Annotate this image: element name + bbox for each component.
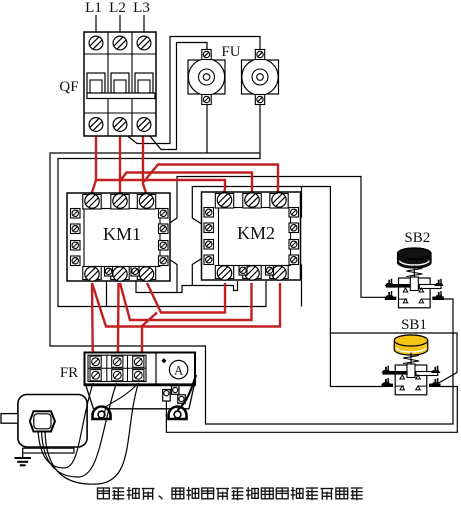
svg-text:KM1: KM1 [103, 224, 141, 244]
svg-text:QF: QF [59, 79, 78, 95]
svg-text:SB2: SB2 [404, 230, 430, 246]
svg-text:L3: L3 [133, 0, 150, 16]
svg-text:L2: L2 [109, 0, 126, 16]
svg-text:L1: L1 [85, 0, 102, 16]
svg-text:KM2: KM2 [237, 223, 275, 243]
svg-text:FU: FU [221, 44, 240, 60]
svg-text:SB1: SB1 [401, 317, 427, 333]
svg-text:A: A [174, 363, 183, 377]
svg-text:FR: FR [60, 365, 78, 381]
